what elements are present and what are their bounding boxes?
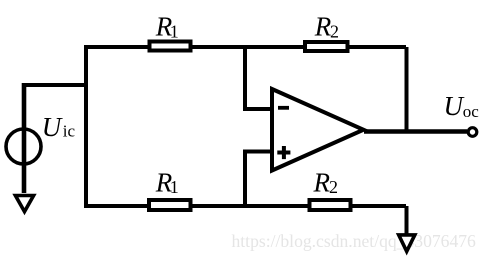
svg-text:2: 2 <box>330 21 339 41</box>
svg-text:1: 1 <box>170 21 179 41</box>
svg-text:2: 2 <box>329 177 338 197</box>
svg-text:oc: oc <box>463 102 480 121</box>
svg-text:R: R <box>313 168 331 198</box>
svg-text:U: U <box>42 112 63 142</box>
svg-text:ic: ic <box>63 122 76 141</box>
svg-text:https://blog.csdn.net/qq_43076: https://blog.csdn.net/qq_43076476 <box>232 231 477 251</box>
svg-text:1: 1 <box>170 177 179 197</box>
svg-text:U: U <box>444 91 465 121</box>
